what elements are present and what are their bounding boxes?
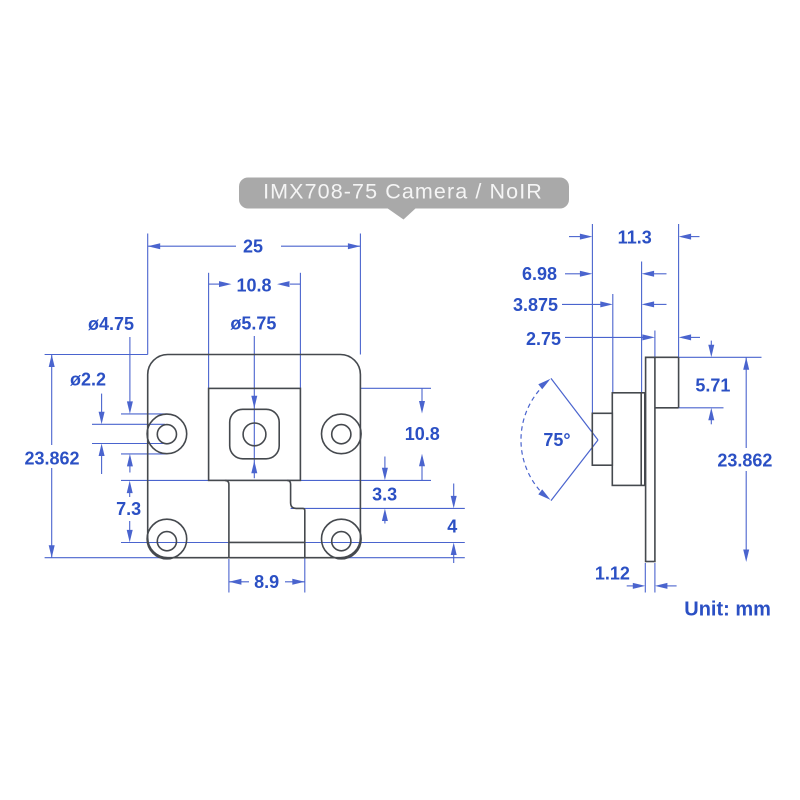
svg-text:ø2.2: ø2.2 <box>70 369 106 389</box>
svg-text:Unit: mm: Unit: mm <box>684 598 771 620</box>
svg-text:25: 25 <box>243 237 263 257</box>
svg-text:23.862: 23.862 <box>717 450 772 470</box>
svg-text:23.862: 23.862 <box>24 448 79 468</box>
svg-text:75°: 75° <box>543 430 570 450</box>
svg-text:1.12: 1.12 <box>595 564 630 584</box>
svg-text:5.71: 5.71 <box>695 376 730 396</box>
svg-text:10.8: 10.8 <box>405 424 440 444</box>
svg-text:ø4.75: ø4.75 <box>88 314 134 334</box>
svg-text:7.3: 7.3 <box>116 499 141 519</box>
svg-text:4: 4 <box>447 517 457 537</box>
svg-text:3.875: 3.875 <box>513 295 558 315</box>
svg-text:IMX708-75 Camera / NoIR: IMX708-75 Camera / NoIR <box>263 180 543 204</box>
svg-text:2.75: 2.75 <box>526 329 561 349</box>
svg-text:10.8: 10.8 <box>236 276 271 296</box>
svg-text:11.3: 11.3 <box>618 228 652 248</box>
svg-text:ø5.75: ø5.75 <box>230 313 276 333</box>
svg-text:8.9: 8.9 <box>254 572 279 592</box>
svg-text:3.3: 3.3 <box>372 485 397 505</box>
svg-text:6.98: 6.98 <box>522 264 557 284</box>
